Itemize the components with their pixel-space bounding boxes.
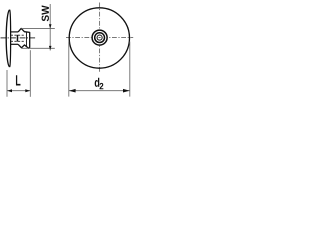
hidden line lower <box>11 40 25 42</box>
d2 arrow left <box>69 89 76 93</box>
disc left edge <box>6 10 9 67</box>
SW arrow bottom <box>49 46 52 50</box>
big circle d2 <box>69 8 129 68</box>
L ext line left <box>6 70 8 97</box>
d2 ext line right <box>129 42 131 97</box>
circle centerline vertical <box>99 3 101 73</box>
bar (hex left edge) <box>17 35 19 42</box>
L dim line <box>7 90 30 92</box>
d2 dim line <box>69 90 130 92</box>
head inner edge <box>26 32 28 46</box>
SW ext line bottom <box>22 47 55 49</box>
circle centerline horizontal <box>66 37 133 39</box>
center dot <box>99 37 101 39</box>
hidden line upper <box>11 34 25 36</box>
label SW <box>42 5 49 21</box>
neck bottom <box>10 43 18 45</box>
ring outer <box>92 30 107 45</box>
ring middle <box>95 33 105 43</box>
SW ext line top <box>21 28 54 30</box>
label d2 <box>95 78 100 87</box>
neck top <box>10 31 18 33</box>
L ext line right <box>29 50 31 97</box>
L arrow left <box>7 89 12 92</box>
SW dim line <box>49 4 51 51</box>
SW arrow top <box>49 24 52 28</box>
d2 arrow right <box>123 89 130 93</box>
d2 ext line left <box>68 42 70 97</box>
white cross gap <box>99 29 101 46</box>
disc right edge <box>9 10 12 67</box>
label L <box>16 75 21 85</box>
head outline <box>18 28 30 48</box>
ring inner <box>97 35 102 40</box>
centerline side view <box>1 37 36 39</box>
L arrow right <box>25 89 30 92</box>
